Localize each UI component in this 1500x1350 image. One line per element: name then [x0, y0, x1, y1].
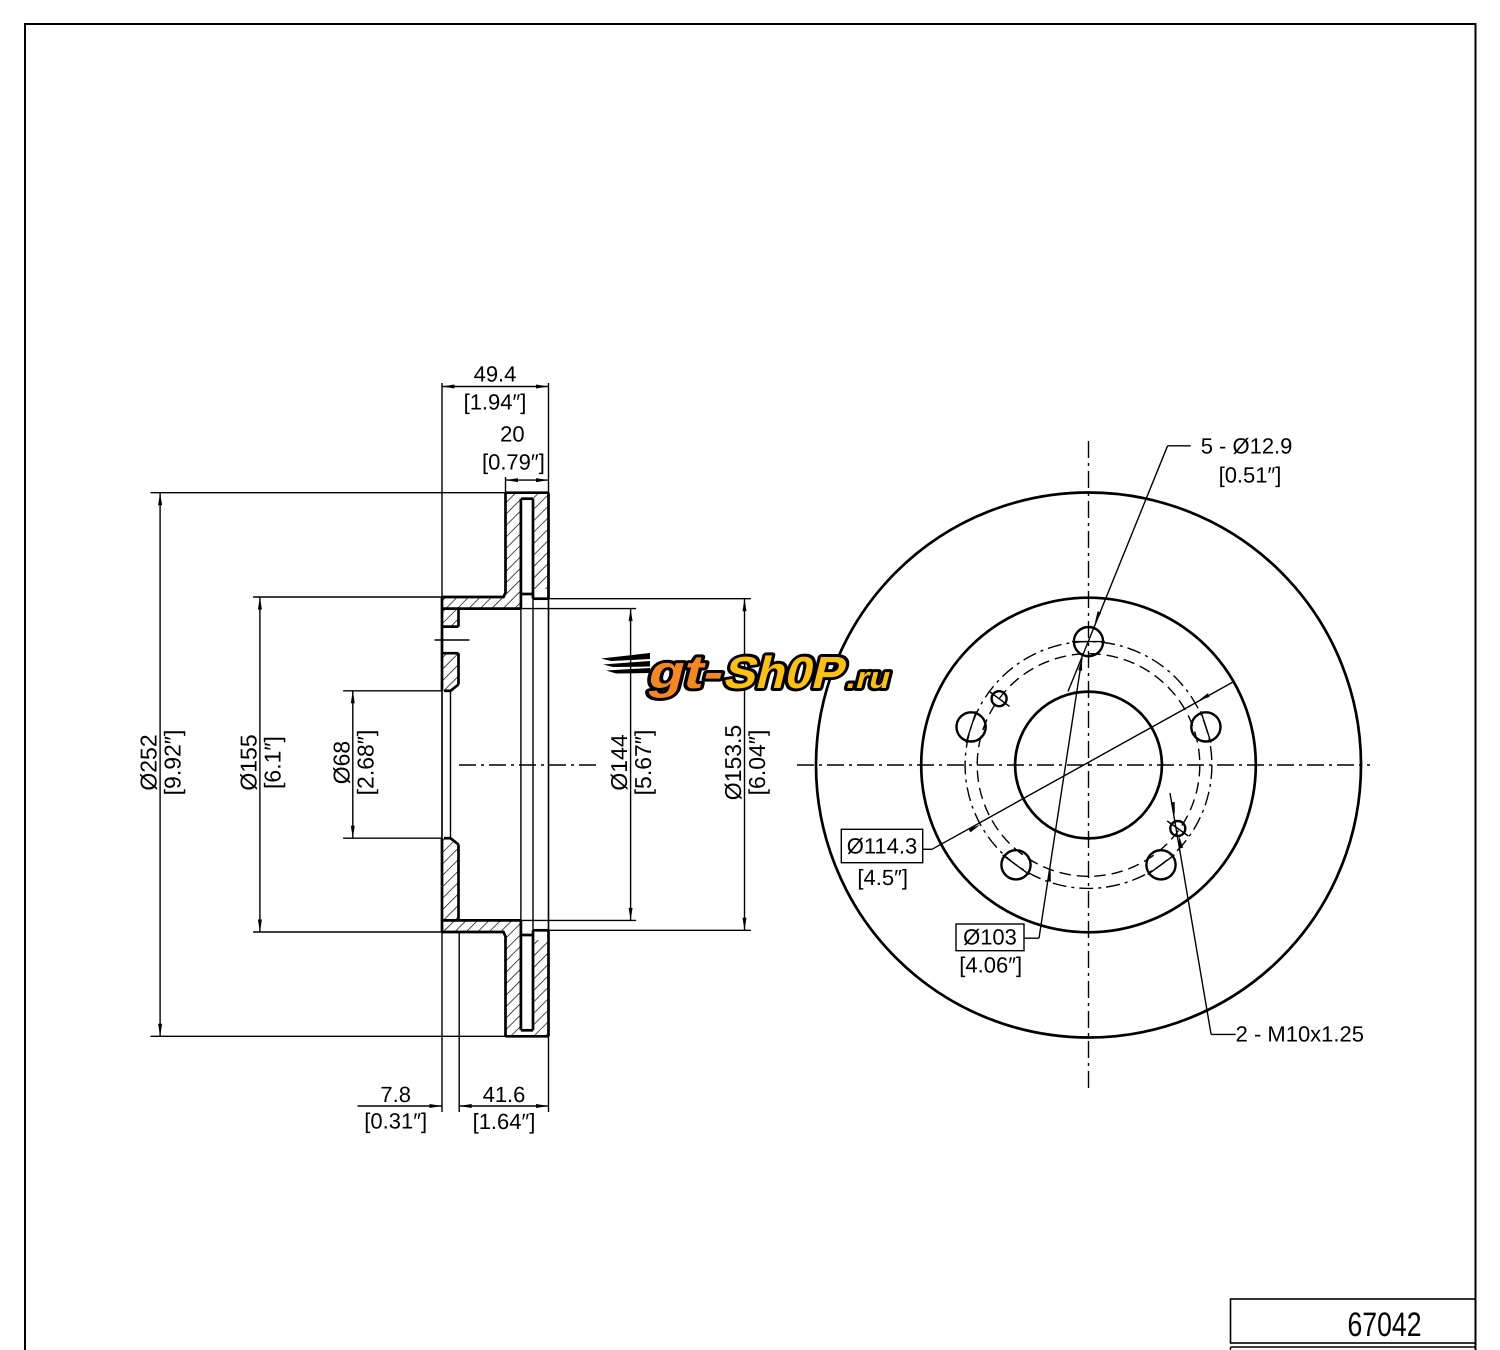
part number 67042 [1348, 1306, 1422, 1344]
front view horizontal centerline [797, 764, 1370, 766]
bolt hole 4 [1001, 850, 1030, 879]
leader D103 [1024, 658, 1082, 938]
M10 hole [992, 691, 1007, 706]
svg-text:[5.67″]: [5.67″] [630, 730, 656, 796]
svg-text:[2.68″]: [2.68″] [352, 730, 378, 796]
svg-text:Ø153.5: Ø153.5 [720, 725, 746, 800]
svg-text:7.8: 7.8 [380, 1082, 411, 1107]
svg-text:[6.1″]: [6.1″] [259, 736, 285, 789]
front view vertical centerline [1088, 441, 1090, 1092]
svg-text:Ø103: Ø103 [963, 924, 1017, 949]
section: thick profile outlines [442, 493, 549, 1037]
bolt hole 2 [1191, 712, 1220, 741]
section: hatched web + left braking plate (top) [442, 493, 521, 609]
dimension line D68 [352, 691, 354, 838]
bolt circle D114.3 (dash-dot) [965, 642, 1212, 889]
extension lines [151, 383, 751, 1112]
svg-text:[9.92″]: [9.92″] [160, 730, 186, 796]
hat circle D155 [921, 598, 1256, 933]
svg-text:5 - Ø12.9: 5 - Ø12.9 [1201, 434, 1293, 459]
svg-text:[6.04″]: [6.04″] [744, 730, 770, 796]
label D114.3 box [841, 829, 922, 862]
gt-shop.ru watermark logo [601, 645, 899, 698]
dimension arrowheads [442, 385, 455, 389]
svg-text:Ø252: Ø252 [136, 734, 162, 790]
title block [1231, 1299, 1476, 1350]
svg-text:Ø68: Ø68 [328, 741, 354, 784]
svg-text:[0.31″]: [0.31″] [364, 1109, 427, 1134]
svg-text:[4.5″]: [4.5″] [857, 865, 908, 890]
svg-text:41.6: 41.6 [483, 1082, 526, 1107]
section: hatched web + left braking plate (bottom) [442, 920, 521, 1036]
svg-text:[1.64″]: [1.64″] [473, 1109, 536, 1134]
leader 2-M10x1.25 [1170, 793, 1236, 1034]
bolt hole 1 [1074, 627, 1103, 656]
dimension line 20 [506, 479, 549, 481]
dimension line D252 [159, 493, 161, 1037]
svg-text:Ø144: Ø144 [606, 734, 632, 790]
section: hatched right braking plate (bottom) [533, 940, 549, 1036]
dimension line D153.5 [744, 599, 746, 931]
section: thin silhouette lines inside hat opening [442, 599, 549, 931]
M10 hole [1170, 821, 1185, 836]
svg-text:Sh0P: Sh0P [720, 647, 853, 698]
section: hatched hat wall above flange bolt hole [442, 609, 459, 627]
svg-text:20: 20 [500, 421, 524, 446]
leader D114.3 diameter line [923, 682, 1233, 849]
section flange bolt-hole centerline tick [435, 639, 470, 641]
hub bore circle D68 [1015, 692, 1162, 839]
svg-text:gt-: gt- [644, 645, 731, 698]
dimension line 7.8 [358, 1105, 443, 1107]
svg-text:2 - M10x1.25: 2 - M10x1.25 [1236, 1021, 1364, 1046]
bolt hole 5 [957, 712, 986, 741]
section: hatched right braking plate (top) [533, 493, 549, 589]
svg-text:67042: 67042 [1348, 1306, 1422, 1344]
bolt hole 3 [1146, 850, 1175, 879]
svg-text:[4.06″]: [4.06″] [959, 952, 1022, 977]
label D103 box [956, 924, 1024, 951]
section axis centerline [459, 764, 596, 766]
svg-text:.ru: .ru [843, 662, 894, 695]
svg-text:[0.51″]: [0.51″] [1219, 462, 1282, 487]
dimension line D144 [630, 609, 632, 921]
svg-text:[1.94″]: [1.94″] [464, 390, 527, 415]
section: hatched flange below bore (bottom) [442, 838, 459, 920]
svg-text:Ø155: Ø155 [235, 734, 261, 790]
section: hatched flange below bolt hole with bore chamfer [442, 653, 459, 691]
dimension line 49.4 [442, 386, 549, 388]
dimension line D155 [259, 597, 261, 932]
circle D103 (dashed) [977, 654, 1200, 877]
svg-text:[0.79″]: [0.79″] [482, 450, 545, 475]
svg-text:49.4: 49.4 [474, 362, 517, 387]
leader 5-D12.9 [1068, 446, 1191, 692]
svg-text:Ø114.3: Ø114.3 [847, 833, 918, 858]
outer circle D252 [816, 493, 1361, 1038]
dimension line 41.6 [459, 1105, 548, 1107]
